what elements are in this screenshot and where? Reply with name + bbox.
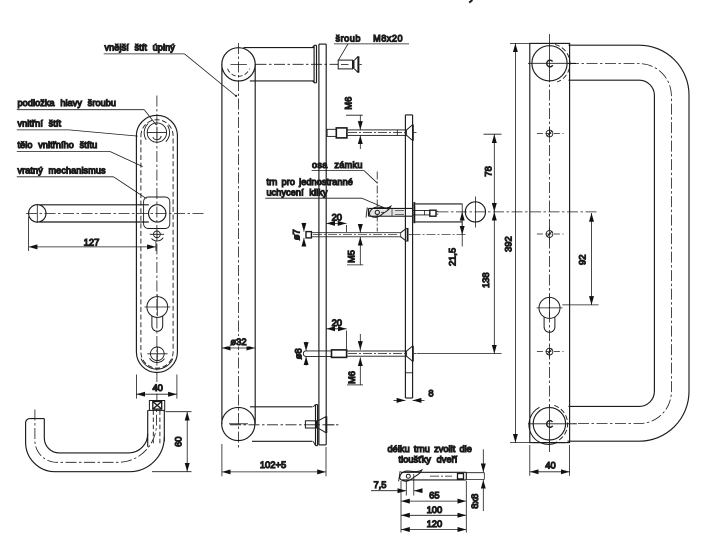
grip centerline xyxy=(35,409,157,462)
svg-text:vnější štít úplný: vnější štít úplný xyxy=(105,43,176,53)
dimension o32 xyxy=(222,347,255,349)
bottom screw left plate xyxy=(147,346,167,362)
svg-text:127: 127 xyxy=(84,236,100,247)
svg-text:podložka hlavy šroubu: podložka hlavy šroubu xyxy=(18,98,117,108)
bottom arm edges xyxy=(250,406,313,408)
lever grip outer contour xyxy=(26,419,165,472)
small screw 3 xyxy=(537,345,564,358)
dimension 127 xyxy=(29,217,156,252)
outer shield plate xyxy=(530,43,570,442)
plate vertical centerline xyxy=(156,96,158,383)
ball crosshair ticks xyxy=(231,63,247,65)
dimension 21,5 xyxy=(461,204,463,247)
bottom flange xyxy=(313,405,317,446)
top flange xyxy=(312,45,316,83)
svg-text:40: 40 xyxy=(545,460,555,471)
svg-text:vratný mechanismus: vratný mechanismus xyxy=(18,165,107,175)
svg-text:ø32: ø32 xyxy=(230,336,246,347)
bottom rolled edge arc xyxy=(141,359,173,370)
thread ticks xyxy=(391,208,393,216)
svg-text:8: 8 xyxy=(428,387,433,398)
dimension 60 xyxy=(152,412,192,472)
dimension 20 lower (M6) xyxy=(326,329,346,349)
lever neck outline xyxy=(147,410,149,446)
svg-text:tloušťky dveří: tloušťky dveří xyxy=(399,454,458,464)
handle hub circle (section) xyxy=(465,202,485,222)
spindle detail body xyxy=(399,470,485,481)
dimension o7 xyxy=(303,223,305,247)
svg-text:ø7: ø7 xyxy=(291,229,302,240)
dimension 392 xyxy=(510,43,530,442)
svg-text:M6: M6 xyxy=(343,97,354,110)
svg-text:392: 392 xyxy=(503,236,514,252)
clip on detail xyxy=(400,470,422,481)
shield plate side strip xyxy=(319,44,326,445)
bottom fixing screw (side) xyxy=(305,416,334,433)
svg-text:trn pro jednostranné: trn pro jednostranné xyxy=(267,177,353,187)
svg-text:uchycení kliky: uchycení kliky xyxy=(267,188,328,198)
return mechanism box (vratny mechanismus) xyxy=(144,197,170,229)
inner shield body dashed outline xyxy=(141,120,173,368)
hidden square hole in neck xyxy=(153,410,160,444)
svg-text:20: 20 xyxy=(332,317,342,328)
stray mark top xyxy=(469,0,472,3)
dimension 40 (left plate) xyxy=(136,375,177,399)
dimension o8 xyxy=(305,342,307,366)
svg-text:osa zámku: osa zámku xyxy=(312,160,363,170)
upper M6 screw xyxy=(327,125,416,141)
bottom washer xyxy=(528,405,577,444)
pull handle inner contour xyxy=(569,80,655,406)
lock axis vertical centerline xyxy=(376,172,378,232)
top ball end xyxy=(222,48,255,81)
dimension 65 xyxy=(401,481,466,533)
dimension 40 (right plate) xyxy=(530,445,570,476)
handle bar axis centerline xyxy=(26,212,205,214)
dimension 120 xyxy=(401,529,466,531)
alternative length extension xyxy=(466,472,484,474)
svg-text:vnitřní štít: vnitřní štít xyxy=(18,118,62,128)
grip tube edges xyxy=(221,64,223,424)
M5 screw xyxy=(306,228,466,242)
svg-text:8x8: 8x8 xyxy=(469,494,480,509)
long handle axis centerline right part xyxy=(438,211,599,213)
small screw 2 xyxy=(537,228,564,241)
svg-text:40: 40 xyxy=(152,382,162,393)
inner shield plate outer outline xyxy=(136,115,177,372)
top arm edges xyxy=(244,47,315,49)
pull handle centerline xyxy=(568,64,671,424)
dimension 138 xyxy=(417,212,502,354)
dimension 92 xyxy=(562,213,598,305)
pull handle outer contour xyxy=(568,45,690,441)
nut on spindle xyxy=(430,210,436,216)
screw M8x20 xyxy=(338,56,362,72)
svg-text:138: 138 xyxy=(480,272,491,288)
svg-text:78: 78 xyxy=(482,166,493,176)
small screw 1 xyxy=(537,127,564,140)
spindle (trn) with spring clip xyxy=(366,206,438,217)
lever handle bar (left view) xyxy=(29,205,46,222)
hidden arc under top ball xyxy=(228,69,250,77)
svg-text:tělo vnitřního štítu: tělo vnitřního štítu xyxy=(18,140,98,150)
svg-text:100: 100 xyxy=(427,504,443,515)
dimension 20 upper (M5) xyxy=(326,223,346,232)
svg-text:60: 60 xyxy=(173,436,184,446)
bottom ball end xyxy=(222,407,255,440)
svg-text:21,5: 21,5 xyxy=(447,248,458,266)
lever grip inner contour xyxy=(44,419,147,453)
svg-text:120: 120 xyxy=(427,518,443,529)
clip xyxy=(369,206,390,217)
svg-text:M5: M5 xyxy=(346,250,357,263)
bottom arm axis xyxy=(230,424,340,426)
dimension 8 (door thickness) xyxy=(394,399,425,401)
spindle square with X xyxy=(149,401,164,411)
lower M6 screw xyxy=(303,346,416,362)
top arm axis xyxy=(256,63,339,65)
svg-text:ø8: ø8 xyxy=(293,348,304,359)
centerline stub above square xyxy=(156,394,158,401)
dimension 78 xyxy=(484,134,502,212)
svg-text:délku trnu zvolit dle: délku trnu zvolit dle xyxy=(388,444,472,454)
dimension 100 xyxy=(401,514,466,516)
bracket on far side of door xyxy=(414,202,462,223)
svg-text:102+5: 102+5 xyxy=(260,459,286,470)
svg-text:7,5: 7,5 xyxy=(373,479,386,490)
keyhole right plate xyxy=(537,295,563,332)
handle hub circle xyxy=(149,205,166,222)
dimension 7,5 xyxy=(371,474,421,496)
svg-text:šroub M8x20: šroub M8x20 xyxy=(336,33,404,43)
svg-text:65: 65 xyxy=(429,490,439,501)
top washer xyxy=(528,45,576,83)
svg-text:20: 20 xyxy=(332,212,342,223)
svg-text:92: 92 xyxy=(576,255,587,265)
washer of screw head (podlozka) xyxy=(144,123,169,142)
plate centerline xyxy=(549,34,551,452)
svg-text:M6: M6 xyxy=(346,371,357,384)
dimension 8x8 xyxy=(482,449,484,511)
small screw under hub xyxy=(150,230,164,241)
keyhole (euro profile) left plate xyxy=(145,295,171,332)
dimension 102+5 xyxy=(222,444,326,476)
door bar xyxy=(405,115,412,398)
tube vertical centerline xyxy=(238,43,240,448)
